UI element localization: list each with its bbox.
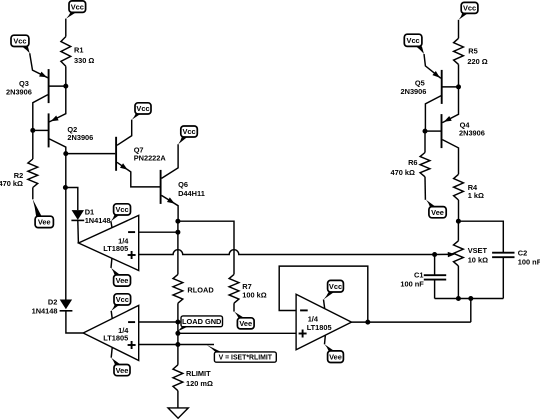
svg-text:C1: C1 [414, 270, 423, 279]
svg-text:100 kΩ: 100 kΩ [242, 290, 266, 299]
power Vcc supply (Q7 collector) [132, 103, 151, 120]
power Vee supply (R6 bottom) [426, 200, 446, 218]
wire U1 non-inverting input to VSET wiper (with hops) [139, 250, 435, 255]
node LOAD GND junction [175, 320, 180, 325]
wire R4 bottom to VSET top node [458, 200, 460, 221]
label D2 1N4148 [32, 298, 58, 316]
wire Q2 base node down to R2 [32, 130, 34, 159]
label RLOAD [187, 286, 214, 295]
label Q4 2N3906 [459, 120, 485, 137]
label R6 470 kOhm [391, 158, 418, 177]
svg-text:LOAD GND: LOAD GND [182, 317, 222, 326]
svg-text:Vcc: Vcc [329, 282, 342, 291]
node Q6 emitter junction [175, 219, 180, 224]
label C1 100 nF [400, 270, 424, 288]
power Vee supply (R7 bottom) [234, 312, 254, 329]
transistor Q4 [425, 87, 459, 174]
svg-text:1N4148: 1N4148 [85, 216, 111, 225]
transistor Q5 [424, 54, 459, 131]
label R2 470 kOhm [0, 171, 23, 188]
svg-text:C2: C2 [518, 248, 527, 257]
wire U3 feedback loop [279, 266, 368, 322]
svg-text:RLIMIT: RLIMIT [186, 369, 211, 378]
node VSET bottom junction [456, 296, 461, 301]
label R5 220 Ohm [467, 47, 487, 67]
net label LOAD GND [176, 316, 223, 332]
wire Q6 emitter node down to RLOAD [177, 221, 179, 274]
node R1/Q3-base/Q2-emitter junction [63, 84, 68, 89]
svg-text:LT1805: LT1805 [103, 244, 128, 253]
label RLIMIT 120 mOhm [186, 369, 213, 388]
power Vcc supply (op-amp U2) [111, 294, 130, 319]
node U3 non-inverting branch junction [175, 331, 180, 336]
power Vee supply (op-amp U2) [111, 348, 130, 376]
wire VSET bottom [457, 266, 459, 299]
node Q2-collector/Q7-base junction [63, 151, 68, 156]
wire R6 bottom to Vee [424, 177, 426, 200]
svg-text:330 Ω: 330 Ω [74, 56, 94, 65]
svg-text:Vee: Vee [329, 352, 342, 361]
label R1 330 Ohm [74, 46, 94, 66]
resistor R1 [61, 37, 71, 67]
svg-text:D44H11: D44H11 [178, 189, 205, 198]
power Vee supply (op-amp U3) [325, 336, 344, 363]
diode D2 1N4148 [60, 300, 73, 311]
wire Q6 emitter to R7 top [178, 221, 234, 274]
svg-text:D2: D2 [48, 298, 57, 307]
capacitor C1 [424, 275, 446, 279]
svg-text:2N3906: 2N3906 [6, 88, 32, 97]
svg-text:R1: R1 [74, 46, 83, 55]
svg-text:10 kΩ: 10 kΩ [468, 255, 488, 264]
svg-text:RLOAD: RLOAD [187, 286, 214, 295]
svg-text:100 nF: 100 nF [518, 257, 540, 266]
label Q7 PN2222A [134, 145, 167, 162]
label Q2 2N3906 [67, 125, 93, 142]
svg-text:Q3: Q3 [19, 79, 29, 88]
transistor Q6 [161, 144, 179, 221]
label Q5 2N3906 [401, 78, 427, 95]
power Vcc supply (R5 top) [459, 2, 478, 19]
op-amp U2 1/4 LT1805 [83, 305, 139, 360]
svg-text:Vcc: Vcc [13, 37, 26, 46]
potentiometer VSET [435, 241, 464, 266]
resistor R4 [454, 174, 464, 200]
resistor R2 [28, 159, 38, 188]
wire U2 non-inverting input [139, 344, 214, 346]
node Q3-collector/Q2-base/R2 junction [30, 128, 35, 133]
svg-text:Vee: Vee [116, 276, 129, 285]
node R5/Q5-base/Q4-emitter junction [456, 84, 461, 89]
svg-text:Vcc: Vcc [115, 205, 128, 214]
svg-text:2N3906: 2N3906 [401, 87, 427, 96]
node D1 branch junction [63, 185, 68, 190]
wire C2 bottom [502, 257, 504, 298]
power Vee supply (R2 bottom) [33, 199, 54, 227]
svg-text:2N3906: 2N3906 [67, 133, 93, 142]
label VSET 10 kOhm [468, 246, 488, 265]
node U2 non-inverting branch junction [175, 342, 180, 347]
power Vcc supply (Q6 collector) [178, 126, 197, 144]
label R7 100 kOhm [242, 282, 266, 300]
wire R2 bottom to Vee [32, 188, 34, 200]
wire R1 bottom to Q3 base node [65, 66, 67, 86]
wire bottom rail C1-C2 [435, 298, 504, 300]
svg-text:VSET: VSET [468, 246, 488, 255]
svg-text:470 kΩ: 470 kΩ [391, 168, 415, 177]
svg-text:1N4148: 1N4148 [32, 307, 58, 316]
node R4/VSET/C2 junction [456, 219, 461, 224]
resistor R6 [420, 153, 430, 177]
wire U3 output [352, 321, 471, 323]
svg-text:LT1805: LT1805 [103, 334, 128, 343]
power Vcc supply (R1 top) [66, 1, 86, 19]
node U1 inverting input junction [175, 230, 180, 235]
svg-text:D1: D1 [85, 207, 94, 216]
label C2 100 nF [518, 248, 540, 266]
node U3 output/feedback junction [365, 320, 370, 325]
label D1 1N4148 [85, 207, 111, 225]
svg-text:PN2222A: PN2222A [134, 154, 167, 163]
svg-text:Vee: Vee [116, 366, 129, 375]
net label V = ISET*RLIMIT [207, 345, 277, 362]
wire VSET top node to C2 [458, 221, 503, 253]
wire RLOAD node to U3 non-inverting input [178, 332, 296, 334]
wire R7 bottom to Vee [233, 303, 235, 311]
op-amp U1 1/4 LT1805 [79, 215, 139, 270]
svg-text:100 nF: 100 nF [400, 280, 424, 289]
wire Vcc to R5 [458, 20, 460, 39]
svg-text:V = ISET*RLIMIT: V = ISET*RLIMIT [219, 355, 273, 362]
resistor RLOAD [173, 274, 183, 303]
power Vcc supply (op-amp U3) [324, 280, 344, 308]
resistor R7 [229, 274, 239, 303]
svg-text:220 Ω: 220 Ω [467, 57, 487, 66]
svg-text:Vee: Vee [38, 218, 51, 227]
power Vcc supply (op-amp U1) [111, 204, 131, 228]
label Q6 D44H11 [178, 180, 205, 198]
wire C1 top [434, 255, 436, 276]
transistor Q3 [30, 53, 66, 130]
svg-text:Vcc: Vcc [182, 127, 195, 136]
power Vcc supply (Q3 emitter) [11, 35, 30, 53]
wire U1 inverting input to RLOAD-top node [139, 231, 178, 233]
wire left rail down to D2 [65, 154, 67, 300]
wire VSET top [457, 221, 459, 241]
svg-text:LT1805: LT1805 [307, 323, 332, 332]
ground [168, 408, 188, 418]
svg-text:1 kΩ: 1 kΩ [468, 191, 484, 200]
wire D2 to op-amp U2 output [66, 311, 83, 333]
svg-text:Vcc: Vcc [71, 2, 84, 11]
wire Q2 collector node to Q7 base [66, 153, 115, 155]
wire D1 branch [65, 188, 77, 211]
svg-text:2N3906: 2N3906 [459, 129, 485, 138]
wire RLIMIT bottom to ground [177, 391, 179, 408]
wire R5 bottom to Q5 base node [458, 64, 460, 87]
svg-text:470 kΩ: 470 kΩ [0, 179, 23, 188]
svg-text:120 mΩ: 120 mΩ [186, 379, 213, 388]
node Q5-collector/Q4-base/R6 junction [423, 129, 428, 134]
resistor RLIMIT [173, 365, 183, 391]
svg-text:Q6: Q6 [178, 180, 188, 189]
diode D1 1N4148 [71, 210, 84, 243]
transistor Q7 [116, 120, 160, 187]
svg-text:R5: R5 [468, 47, 477, 56]
svg-text:Vee: Vee [239, 319, 252, 328]
wire U3 output up to C1/C2 bottom rail [470, 299, 472, 323]
node output riser junction [468, 296, 473, 301]
wire Vcc to R1 top [65, 19, 67, 37]
wire C1 bottom [434, 280, 436, 299]
transistor Q2 [33, 86, 66, 154]
capacitor C2 [492, 253, 514, 258]
svg-text:R6: R6 [408, 158, 417, 167]
wire RLOAD bottom to RLIMIT top [177, 303, 179, 365]
power Vee supply (op-amp U1) [111, 258, 131, 286]
label Q3 2N3906 [6, 79, 32, 97]
op-amp U3 1/4 LT1805 [296, 294, 351, 350]
power Vcc supply (Q5 emitter) [404, 34, 424, 54]
svg-text:Vcc: Vcc [136, 104, 149, 113]
svg-text:Vee: Vee [431, 208, 444, 217]
svg-text:Vcc: Vcc [407, 36, 420, 45]
wire Q4 base node down to R6 [424, 131, 426, 152]
svg-text:Vcc: Vcc [463, 4, 476, 13]
label R4 1 kOhm [468, 183, 484, 200]
node C1 / wiper junction [432, 252, 437, 257]
wire U2 inverting input to LOAD GND node [139, 321, 178, 323]
svg-text:Vcc: Vcc [116, 295, 129, 304]
resistor R5 [454, 38, 464, 64]
